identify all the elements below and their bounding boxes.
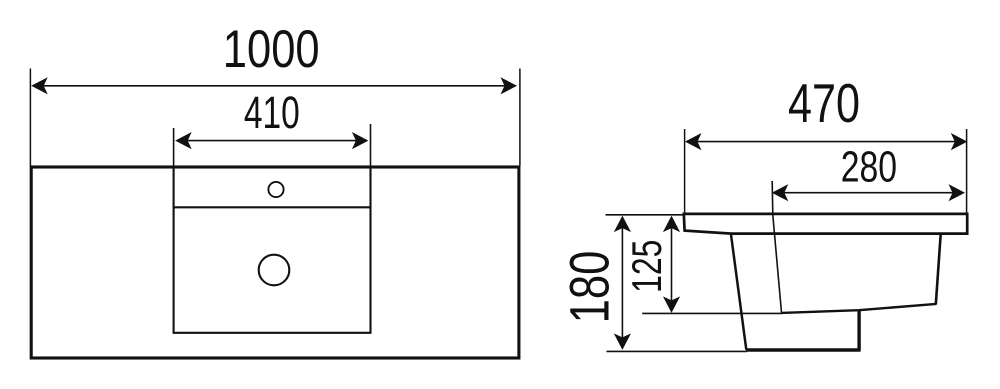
svg-text:1000: 1000 xyxy=(223,20,320,79)
svg-text:410: 410 xyxy=(244,88,300,138)
svg-text:125: 125 xyxy=(623,240,670,293)
svg-text:180: 180 xyxy=(558,251,620,324)
svg-text:280: 280 xyxy=(841,144,897,192)
svg-text:470: 470 xyxy=(788,73,860,134)
